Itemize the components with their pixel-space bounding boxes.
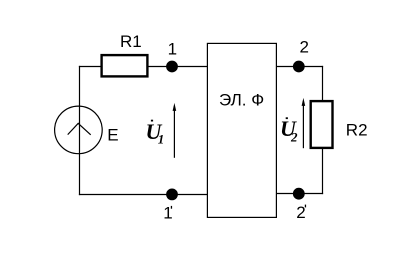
- svg-text:R1: R1: [120, 32, 142, 51]
- wire bottom horizontal: [79, 194, 208, 196]
- wire node 2' to right branch: [276, 193, 323, 195]
- wire top-left horizontal: [79, 66, 102, 68]
- wire left vertical: [79, 66, 81, 195]
- wire right vertical lower: [322, 148, 324, 194]
- svg-text:1: 1: [168, 40, 177, 59]
- node 2': [293, 188, 305, 200]
- resistor R1: [102, 55, 148, 76]
- svg-text:2: 2: [290, 130, 298, 145]
- wire box to node 2: [276, 66, 323, 68]
- node 1: [166, 61, 178, 73]
- resistor R2: [311, 101, 333, 148]
- wire R1 to box: [148, 66, 208, 68]
- node 1': [166, 189, 178, 201]
- arrow U2: [302, 101, 304, 148]
- svg-text:2: 2: [300, 38, 309, 57]
- node 2: [293, 61, 305, 73]
- svg-text:ЭЛ. Ф: ЭЛ. Ф: [219, 91, 264, 110]
- svg-text:E: E: [107, 126, 118, 145]
- svg-text:R2: R2: [346, 121, 368, 140]
- wire right vertical upper: [322, 66, 324, 101]
- svg-text:1: 1: [158, 132, 165, 147]
- svg-text:2: 2: [296, 203, 305, 222]
- voltage source E arrow caret: [68, 123, 91, 134]
- two-port box EL.F: [207, 43, 276, 217]
- voltage source E circle: [55, 106, 103, 154]
- arrow U1: [173, 106, 175, 158]
